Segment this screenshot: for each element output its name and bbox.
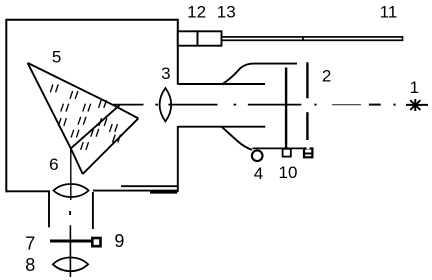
svg-text:13: 13 bbox=[217, 2, 236, 21]
thick bar at chamber bottom right bbox=[150, 191, 177, 194]
lens 6 in chamber bottom opening bbox=[54, 184, 89, 197]
chamber bottom inner step line bbox=[121, 185, 179, 187]
detector base line bbox=[253, 147, 308, 149]
square 10a (open mount under slit bar) bbox=[283, 149, 291, 157]
svg-text:7: 7 bbox=[25, 234, 35, 254]
axis dash inside lens bbox=[168, 104, 172, 106]
svg-text:1: 1 bbox=[410, 78, 419, 97]
prism 5 inner diagonal C-X bbox=[71, 104, 121, 148]
vacuum chamber box: left, top, right edges bbox=[6, 20, 178, 193]
slit bar 2 lower segment bbox=[306, 112, 308, 140]
slit bar (aperture) left bbox=[285, 68, 287, 150]
svg-text:11: 11 bbox=[380, 2, 398, 21]
horn bottom outline bbox=[222, 127, 253, 150]
collimator rect 13 bbox=[198, 31, 222, 45]
axis dot bbox=[314, 104, 316, 106]
collimator rect 12 bbox=[178, 31, 198, 45]
square 10b inner bar bbox=[304, 153, 312, 155]
square 9 bbox=[92, 238, 100, 246]
chamber bottom edge right segment bbox=[93, 190, 177, 192]
prism 5 edge B-E bbox=[114, 105, 139, 118]
star vertical stroke bbox=[414, 99, 416, 111]
slit bar 2 upper segment bbox=[306, 62, 308, 98]
svg-text:6: 6 bbox=[49, 155, 58, 174]
axis dash bbox=[369, 104, 381, 106]
vertical axis solid through 7 and 8 bbox=[69, 225, 71, 277]
prism glass hatching bbox=[50, 85, 120, 150]
horn top outline bbox=[222, 64, 297, 85]
star diagonal / bbox=[410, 100, 420, 110]
prism 5 left edge A-C bbox=[28, 63, 71, 148]
svg-text:4: 4 bbox=[254, 164, 263, 183]
square 10b (mount with inner bar) bbox=[304, 149, 312, 158]
axis faint dash bbox=[332, 104, 361, 106]
chamber right edge lower part bbox=[177, 126, 179, 192]
tube bottom wall bbox=[178, 126, 265, 128]
svg-text:8: 8 bbox=[25, 255, 35, 275]
bottom channel left wall bbox=[48, 192, 50, 227]
vertical axis solid through lens 6 bbox=[70, 148, 72, 200]
tube top wall bbox=[178, 83, 265, 85]
lens 3 bbox=[160, 88, 172, 121]
svg-text:12: 12 bbox=[187, 2, 206, 21]
svg-text:3: 3 bbox=[161, 64, 170, 83]
axis dot bbox=[393, 104, 395, 106]
axis long dash lens to horn bbox=[173, 104, 218, 106]
svg-text:5: 5 bbox=[52, 47, 61, 66]
prism 5 edge E-F bbox=[83, 118, 139, 174]
svg-text:2: 2 bbox=[322, 67, 331, 86]
square 10b top notch bbox=[307, 146, 310, 149]
source star 1: horizontal ray bbox=[406, 104, 428, 106]
svg-text:10: 10 bbox=[279, 163, 298, 182]
vertical axis dot bbox=[69, 211, 71, 215]
star diagonal \ bbox=[410, 100, 420, 110]
bottom channel right wall bbox=[92, 192, 94, 229]
optical axis dash from prism to lens bbox=[114, 104, 144, 106]
axis dash through slits bbox=[248, 104, 301, 106]
lens 8 bbox=[53, 258, 88, 272]
capillary tube 11 bbox=[222, 37, 403, 40]
prism 5 edge C-F bbox=[71, 148, 83, 174]
axis dot bbox=[155, 104, 158, 106]
capillary tube divider bbox=[302, 37, 304, 40]
circle 4 bbox=[252, 150, 263, 161]
chamber bottom edge left segment bbox=[6, 190, 49, 193]
plate 7 bbox=[50, 240, 92, 243]
svg-text:9: 9 bbox=[114, 231, 124, 251]
prism 5 top edge A-B bbox=[28, 63, 114, 105]
axis dot bbox=[234, 104, 237, 106]
